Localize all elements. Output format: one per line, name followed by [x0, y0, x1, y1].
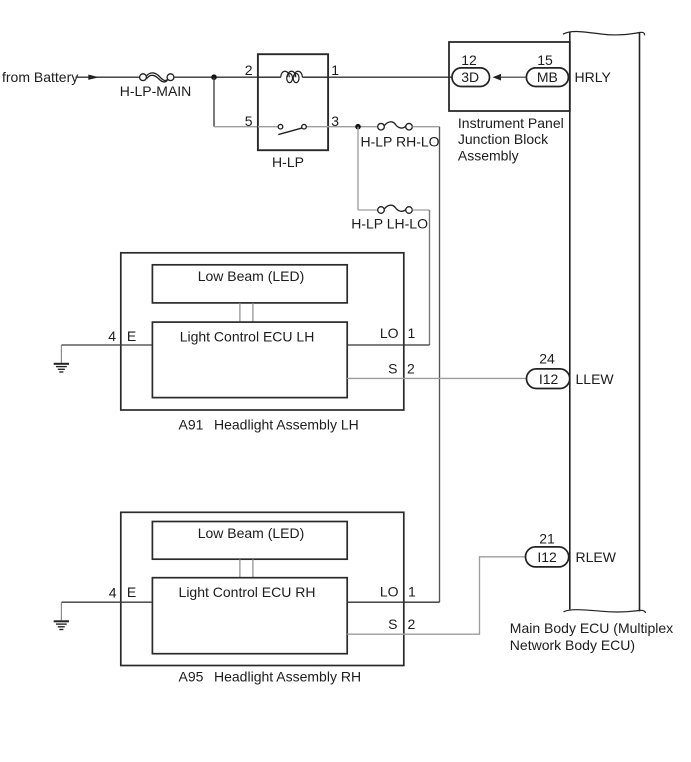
svg-text:21: 21: [539, 531, 555, 547]
relay coil: [281, 71, 303, 82]
svg-text:A95: A95: [179, 668, 204, 684]
ground symbol LH: [54, 345, 69, 372]
wire: ECU RH LO input: [347, 601, 439, 603]
Main Body ECU bar: torn bottom edge: [564, 610, 646, 613]
svg-text:4: 4: [109, 584, 117, 600]
wire: long vertical to RH headlight LO: [439, 127, 441, 603]
relay switch contacts: [278, 124, 283, 129]
relay switch blade: [278, 128, 302, 135]
Main Body ECU bar: right edge: [639, 33, 641, 611]
svg-text:Light Control ECU LH: Light Control ECU LH: [180, 328, 315, 344]
svg-text:H-LP LH-LO: H-LP LH-LO: [351, 215, 428, 231]
fusible link H-LP-MAIN: [140, 73, 174, 82]
svg-text:2: 2: [407, 360, 415, 376]
wire: relay pin 1 to connector 3D: [328, 76, 452, 78]
svg-text:1: 1: [408, 325, 416, 341]
connector I12 RLEW, pin 21: [526, 547, 569, 567]
headlight assembly LH outer box: [121, 253, 404, 410]
wire: ECU RH S to connector I12 RLEW: [347, 557, 525, 634]
wire: ECU LH LO output: [347, 344, 429, 346]
svg-text:3D: 3D: [461, 69, 479, 85]
arrowhead: MB feeds 3D: [493, 74, 502, 81]
light control ECU RH box: [152, 578, 347, 654]
wire: battery feed to fusible link: [76, 76, 140, 78]
wire: ECU RH pin E to ground: [61, 601, 152, 603]
wire: junction down to relay pin 5: [213, 77, 215, 127]
svg-text:I12: I12: [539, 371, 559, 387]
connection lines: low beam to ECU RH: [239, 559, 241, 578]
svg-text:Low Beam (LED): Low Beam (LED): [198, 268, 305, 284]
svg-text:from Battery: from Battery: [2, 69, 78, 85]
wire: junction down to LH-LO fuse: [357, 127, 359, 210]
wire: LH-LO fuse output: [412, 209, 429, 211]
svg-text:LO: LO: [380, 584, 399, 600]
svg-text:4: 4: [108, 328, 116, 344]
fuse H-LP RH-LO: [378, 122, 413, 130]
svg-text:Assembly: Assembly: [458, 147, 519, 163]
svg-text:Light Control ECU RH: Light Control ECU RH: [179, 584, 316, 600]
svg-text:S: S: [388, 616, 397, 632]
svg-text:12: 12: [461, 52, 477, 68]
svg-text:Junction Block: Junction Block: [458, 131, 549, 147]
arrowhead: battery feed direction: [88, 75, 99, 80]
svg-text:Low Beam (LED): Low Beam (LED): [198, 525, 305, 541]
svg-text:Main Body ECU (Multiplex: Main Body ECU (Multiplex: [510, 620, 673, 636]
wire: fusible link to relay pin 2: [174, 76, 258, 78]
svg-text:H-LP RH-LO: H-LP RH-LO: [360, 133, 439, 149]
svg-text:LLEW: LLEW: [576, 371, 615, 387]
svg-text:E: E: [127, 328, 136, 344]
light control ECU LH box: [152, 322, 347, 398]
svg-text:15: 15: [537, 52, 553, 68]
connection lines: low beam to ECU LH: [239, 303, 241, 322]
headlight assembly RH outer box: [121, 512, 404, 665]
svg-text:Headlight Assembly RH: Headlight Assembly RH: [214, 668, 361, 684]
relay coil wire: [258, 76, 281, 78]
svg-text:S: S: [388, 360, 397, 376]
low beam LED unit LH: [152, 265, 347, 303]
wire: MB to 3D: [499, 76, 526, 78]
svg-text:LO: LO: [380, 325, 399, 341]
svg-text:H-LP-MAIN: H-LP-MAIN: [120, 83, 192, 99]
svg-text:1: 1: [331, 62, 339, 78]
svg-text:E: E: [127, 584, 136, 600]
wire: ECU LH S to connector I12 LLEW: [347, 377, 527, 379]
wire: relay pin 3 to LO feed junction: [328, 126, 378, 128]
svg-text:5: 5: [245, 113, 253, 129]
Main Body ECU bar: left edge: [569, 33, 571, 610]
svg-text:Headlight Assembly LH: Headlight Assembly LH: [214, 416, 359, 432]
svg-text:RLEW: RLEW: [576, 549, 617, 565]
wire: RH-LO fuse output: [412, 126, 439, 128]
low beam LED unit RH: [152, 522, 347, 560]
relay H-LP box: [258, 54, 328, 150]
relay switch wires: [258, 126, 278, 128]
svg-text:HRLY: HRLY: [575, 69, 612, 85]
node: junction on battery feed: [211, 74, 217, 80]
svg-text:24: 24: [539, 351, 555, 367]
svg-text:Instrument Panel: Instrument Panel: [458, 115, 564, 131]
svg-text:2: 2: [408, 616, 416, 632]
connector I12 LLEW, pin 24: [527, 369, 570, 389]
svg-text:2: 2: [245, 62, 253, 78]
Instrument Panel Junction Block Assembly box: [449, 42, 570, 111]
ground symbol RH: [54, 602, 69, 629]
node: LO feed junction: [355, 124, 361, 130]
svg-text:A91: A91: [179, 416, 204, 432]
svg-text:1: 1: [408, 584, 416, 600]
fuse H-LP LH-LO: [378, 205, 413, 213]
Main Body ECU bar: torn top edge: [563, 31, 645, 35]
svg-text:Network Body ECU): Network Body ECU): [510, 637, 635, 653]
wire: ECU LH pin E to ground: [61, 344, 152, 346]
svg-text:H-LP: H-LP: [272, 154, 304, 170]
wire: vertical to LH headlight LO: [429, 210, 431, 345]
svg-text:I12: I12: [537, 549, 557, 565]
connector MB, pin 15: [526, 68, 568, 87]
svg-text:MB: MB: [537, 69, 558, 85]
connector 3D, pin 12: [452, 68, 490, 87]
